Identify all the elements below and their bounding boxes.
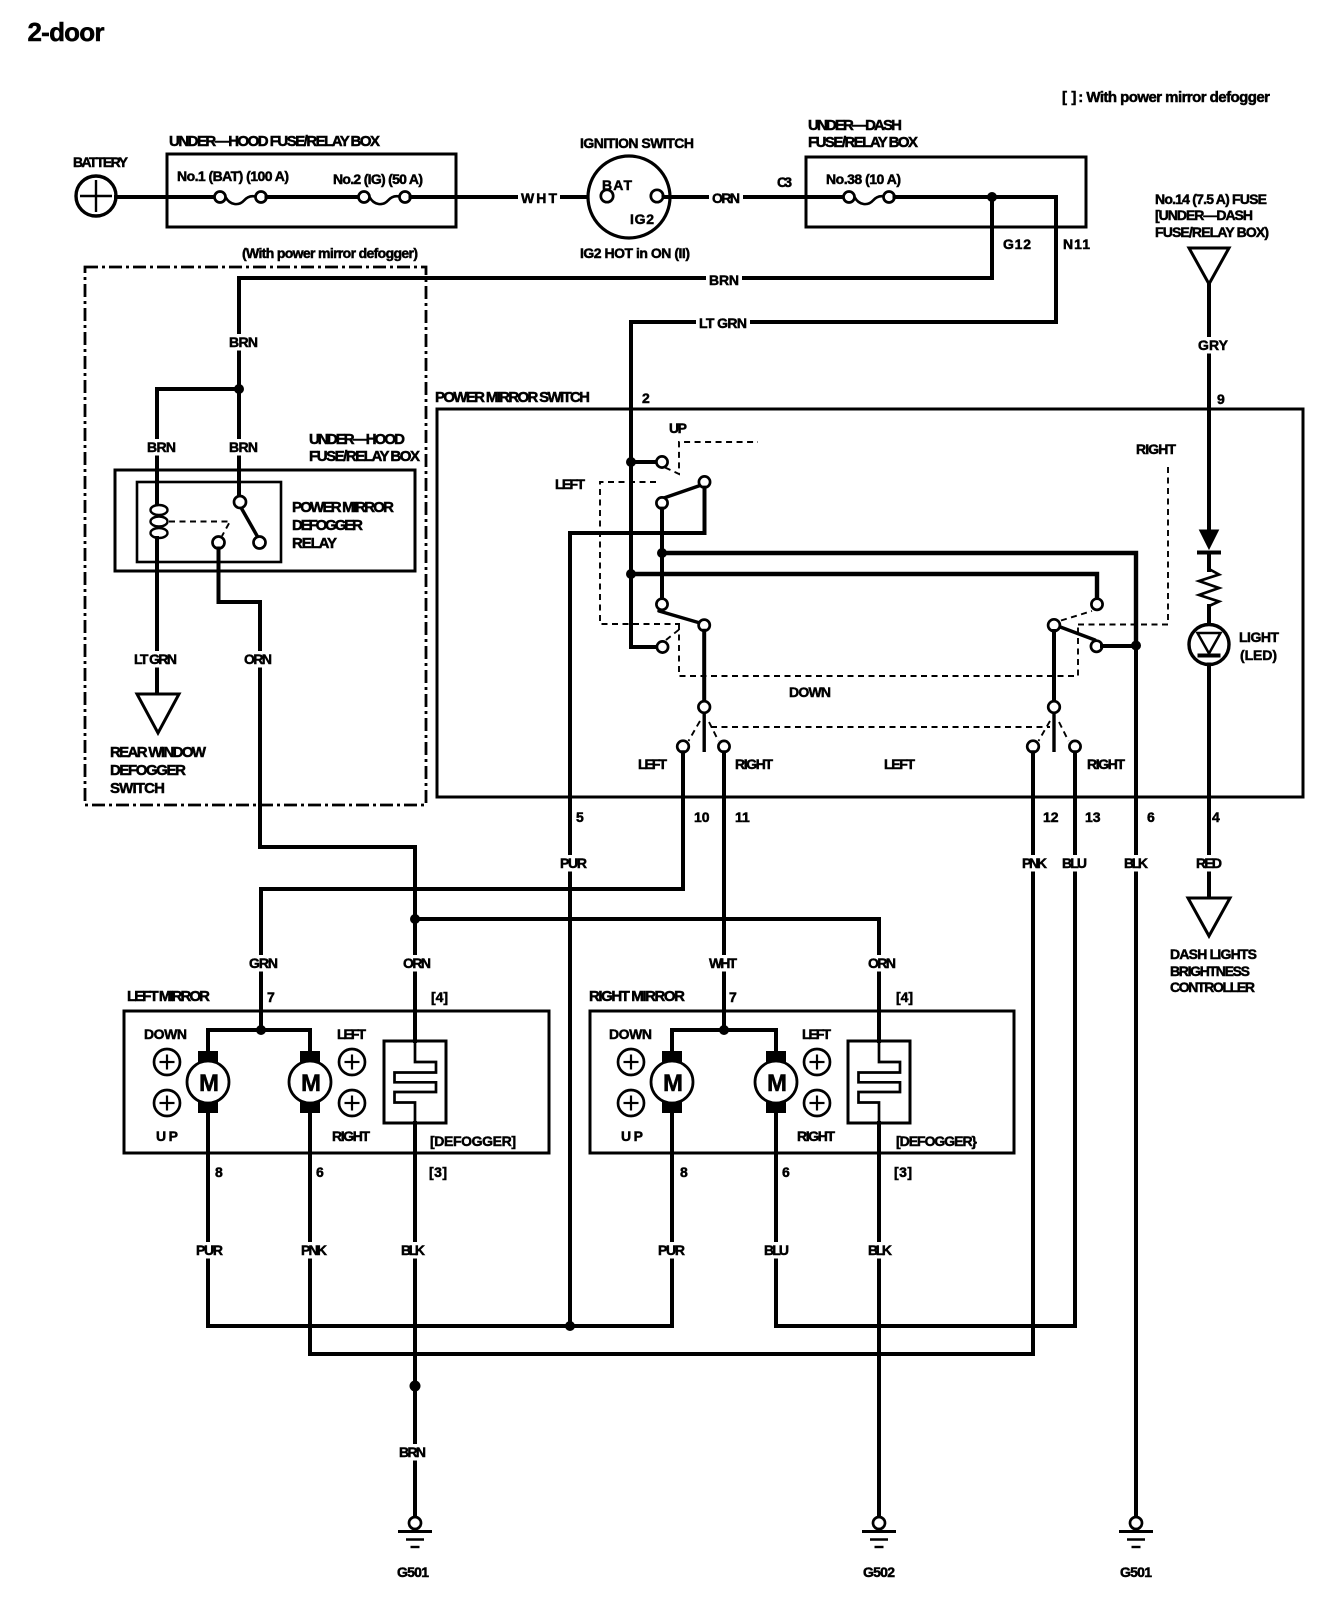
motor right updown xyxy=(651,1051,693,1113)
resistor xyxy=(1199,569,1219,606)
junction BLK line xyxy=(1131,641,1141,651)
wire 2 vertical into switch xyxy=(631,322,657,647)
ground G502 xyxy=(862,1517,896,1580)
fuse No.2 (IG) (50 A) xyxy=(333,171,456,204)
svg-text:PUR: PUR xyxy=(560,855,587,871)
wire LED feed xyxy=(1207,411,1211,530)
svg-text:BRN: BRN xyxy=(229,439,258,455)
svg-text:BRN: BRN xyxy=(709,272,739,288)
left down arm upper circle xyxy=(656,599,667,610)
svg-text:PUR: PUR xyxy=(196,1242,223,1258)
svg-text:7: 7 xyxy=(729,989,737,1005)
svg-text:UNDER—HOOD FUSE/RELAY BOX: UNDER—HOOD FUSE/RELAY BOX xyxy=(169,133,380,150)
wire terminal 12 PNK xyxy=(310,752,1033,1354)
svg-text:PUR: PUR xyxy=(658,1242,685,1258)
svg-text:[UNDER—DASH: [UNDER—DASH xyxy=(1155,207,1253,223)
svg-text:BLK: BLK xyxy=(1124,855,1148,871)
fuse No.38 (10 A) xyxy=(826,171,1056,204)
svg-text:UNDER—HOOD: UNDER—HOOD xyxy=(309,431,405,448)
svg-text:10: 10 xyxy=(694,809,710,825)
pointer circle right xyxy=(1048,701,1060,713)
LED circle xyxy=(1189,625,1229,665)
junction pin7 right xyxy=(719,1025,729,1035)
dash lights controller label xyxy=(1170,946,1257,995)
fuse No.1 (BAT) (100 A) xyxy=(167,168,359,204)
wire ORN ignition to under-dash box xyxy=(664,195,844,199)
svg-text:RIGHT: RIGHT xyxy=(332,1128,370,1144)
terminal 12 contact circle xyxy=(1027,741,1039,753)
wire N11 vertical xyxy=(1054,197,1058,322)
svg-text:G501: G501 xyxy=(397,1564,429,1580)
svg-text:C3: C3 xyxy=(777,174,792,190)
wire BRN horizontal xyxy=(239,276,992,280)
diode xyxy=(1200,530,1219,549)
fuse No.14 label xyxy=(1155,191,1269,240)
svg-text:LEFT MIRROR: LEFT MIRROR xyxy=(127,988,210,1005)
svg-text:LEFT: LEFT xyxy=(555,476,585,492)
terminal 11 contact circle xyxy=(718,741,729,752)
svg-text:(LED): (LED) xyxy=(1240,647,1277,663)
svg-text:[3]: [3] xyxy=(429,1164,447,1180)
wire diode to resistor xyxy=(1207,553,1211,571)
defogger left xyxy=(384,1039,516,1149)
svg-text:BLU: BLU xyxy=(1062,855,1087,871)
right linkage dashed diagonal xyxy=(1061,611,1092,621)
svg-text:6: 6 xyxy=(1147,809,1155,825)
ground G501 left xyxy=(397,1517,432,1580)
svg-text:No.2 (IG) (50 A): No.2 (IG) (50 A) xyxy=(333,171,423,187)
power mirror switch box xyxy=(435,389,1303,797)
relay contact circles xyxy=(234,496,246,508)
svg-text:RIGHT: RIGHT xyxy=(735,756,773,772)
wire ORN to right defogger xyxy=(415,919,879,1041)
svg-text:PNK: PNK xyxy=(301,1242,327,1258)
junction BLK BRN splice xyxy=(410,1381,421,1392)
right switch arm xyxy=(1059,627,1095,641)
wires to left motors xyxy=(208,1030,310,1051)
ignition switch xyxy=(580,135,694,261)
svg-text:[DEFOGGER]: [DEFOGGER] xyxy=(430,1133,516,1149)
svg-text:G502: G502 xyxy=(863,1564,895,1580)
svg-text:GRN: GRN xyxy=(249,955,278,971)
svg-text:[4]: [4] xyxy=(431,989,448,1005)
svg-text:7: 7 xyxy=(267,989,275,1005)
down contact circle wire2 xyxy=(657,641,668,652)
wire to up contact xyxy=(631,460,656,464)
wire WHT box to ignition switch xyxy=(456,195,601,199)
wire row2 horizontal to right xyxy=(631,574,1097,599)
svg-text:RIGHT: RIGHT xyxy=(1136,441,1176,457)
svg-text:BLK: BLK xyxy=(401,1242,425,1258)
svg-text:PNK: PNK xyxy=(1022,855,1047,871)
rear window defogger switch label xyxy=(110,744,207,797)
svg-text:[ ] : With power mirror defog: [ ] : With power mirror defogger xyxy=(1062,89,1270,106)
svg-text:IG2 HOT in ON (II): IG2 HOT in ON (II) xyxy=(580,245,690,261)
svg-text:IGNITION SWITCH: IGNITION SWITCH xyxy=(580,135,694,151)
left down pivot circle xyxy=(699,620,710,631)
svg-text:FUSE/RELAY BOX: FUSE/RELAY BOX xyxy=(808,134,918,151)
wire resistor to LED xyxy=(1207,606,1211,625)
terminal 13 contact circle xyxy=(1069,741,1080,752)
battery B1 xyxy=(73,154,129,216)
svg-text:BRN: BRN xyxy=(399,1444,426,1460)
wire pivot to pointer left xyxy=(702,631,706,701)
fuse No.14 connector triangle xyxy=(1189,248,1229,284)
left down switch arm xyxy=(659,611,700,623)
svg-text:LT GRN: LT GRN xyxy=(134,651,177,667)
junction fuse38 output xyxy=(987,192,997,202)
svg-text:13: 13 xyxy=(1085,809,1101,825)
wire left motor2 PNK xyxy=(308,1113,312,1354)
right pivot circle xyxy=(1048,619,1060,631)
wire right motor1 PUR xyxy=(670,1113,674,1326)
svg-text:8: 8 xyxy=(215,1164,223,1180)
under-hood fuse/relay box (top) xyxy=(167,133,456,227)
DOWN linkage dashed rect xyxy=(679,624,1078,676)
svg-text:FUSE/RELAY BOX: FUSE/RELAY BOX xyxy=(309,448,420,465)
DOWN linkage dashed lower xyxy=(711,726,1050,728)
left mirror box xyxy=(124,988,549,1153)
pointer finger right xyxy=(1052,713,1055,752)
wire row1 horizontal to right xyxy=(662,553,1136,645)
svg-text:6: 6 xyxy=(316,1164,324,1180)
wire left defogger BLK xyxy=(413,1123,417,1517)
pointer circle left xyxy=(698,701,710,713)
junction left mid xyxy=(657,548,667,558)
svg-text:LT GRN: LT GRN xyxy=(699,315,747,331)
wire GRY xyxy=(1207,284,1211,411)
left up pivot circle xyxy=(699,476,710,487)
dash lights controller triangle xyxy=(1188,898,1230,936)
svg-text:No.38 (10 A): No.38 (10 A) xyxy=(826,171,901,187)
wire terminal 10 GRN to left mirror xyxy=(261,752,683,1030)
dashed box with power mirror defogger xyxy=(85,245,426,805)
svg-text:(With power mirror defogger): (With power mirror defogger) xyxy=(242,245,418,261)
svg-text:6: 6 xyxy=(782,1164,790,1180)
svg-text:BATTERY: BATTERY xyxy=(73,154,129,170)
svg-text:LEFT: LEFT xyxy=(802,1026,831,1042)
pointer dashed arcs right xyxy=(1039,721,1051,741)
svg-text:No.1 (BAT) (100 A): No.1 (BAT) (100 A) xyxy=(177,168,289,184)
svg-text:G12: G12 xyxy=(1003,236,1031,252)
wire BRN into dashed box xyxy=(237,278,241,496)
up contact circle xyxy=(656,456,667,467)
svg-text:LEFT: LEFT xyxy=(884,756,915,772)
ground G501 right xyxy=(1119,1517,1153,1580)
relay linkage dashed xyxy=(169,522,230,537)
wire terminal 13 BLU xyxy=(776,752,1075,1326)
svg-text:SWITCH: SWITCH xyxy=(110,780,165,797)
svg-text:LEFT: LEFT xyxy=(638,756,667,772)
svg-text:DOWN: DOWN xyxy=(609,1026,652,1042)
junction pin7 left xyxy=(256,1025,266,1035)
svg-text:IG2: IG2 xyxy=(630,211,654,227)
wire left motor1 PUR xyxy=(206,1113,210,1326)
wire BRN branch left xyxy=(157,389,239,505)
svg-text:RELAY: RELAY xyxy=(292,535,337,552)
svg-text:4: 4 xyxy=(1212,809,1220,825)
right mirror box xyxy=(589,988,1014,1153)
wire PUR bottom bus xyxy=(208,1324,672,1328)
wire LT GRN horizontal xyxy=(631,320,1056,324)
ORN label left mirror xyxy=(400,955,434,972)
svg-text:DOWN: DOWN xyxy=(789,684,831,700)
svg-text:GRY: GRY xyxy=(1198,337,1229,353)
junction BRN split xyxy=(234,384,244,394)
LED cathode bar xyxy=(1198,654,1221,658)
wire G12 vertical xyxy=(990,197,994,278)
svg-text:RIGHT: RIGHT xyxy=(797,1128,835,1144)
motor right leftright xyxy=(755,1051,797,1113)
wire left mid vertical xyxy=(660,509,664,599)
svg-text:ORN: ORN xyxy=(712,190,740,206)
junction wire2 row2 xyxy=(626,569,636,579)
svg-text:ORN: ORN xyxy=(403,955,431,971)
wire RED label xyxy=(1193,855,1225,872)
junction PUR bottom xyxy=(565,1321,575,1331)
svg-text:ORN: ORN xyxy=(244,651,272,667)
terminal 10 contact circle xyxy=(677,741,689,753)
pointer finger left xyxy=(703,713,706,752)
motor left leftright xyxy=(289,1051,331,1113)
svg-text:M: M xyxy=(767,1070,787,1097)
svg-text:M: M xyxy=(199,1070,219,1097)
LEFT linkage dashed xyxy=(600,482,680,624)
plus circles right mirror xyxy=(618,1049,830,1116)
wire relay coil to rear window defogger switch xyxy=(155,538,159,694)
wire right defogger BLK to ground xyxy=(877,1123,881,1517)
relay contact arm xyxy=(241,508,258,538)
svg-text:8: 8 xyxy=(680,1164,688,1180)
svg-text:ORN: ORN xyxy=(868,955,896,971)
svg-text:BLU: BLU xyxy=(764,1242,789,1258)
motor left updown xyxy=(187,1051,229,1113)
wire pivot to pointer right xyxy=(1052,631,1056,701)
svg-text:DOWN: DOWN xyxy=(144,1026,187,1042)
svg-text:BRN: BRN xyxy=(147,439,176,455)
svg-text:UP: UP xyxy=(669,420,687,436)
LIGHT LED label xyxy=(1239,629,1279,663)
svg-text:RED: RED xyxy=(1196,855,1222,871)
svg-text:5: 5 xyxy=(576,809,584,825)
wire ORN from relay to left mirror defogger xyxy=(219,549,416,1042)
under-hood fuse/relay box (relay) xyxy=(115,431,420,571)
svg-text:2-door: 2-door xyxy=(28,17,105,47)
svg-text:12: 12 xyxy=(1043,809,1059,825)
svg-text:REAR WINDOW: REAR WINDOW xyxy=(110,744,207,761)
wire terminal 6 BLK to ground xyxy=(1134,645,1138,1517)
svg-text:RIGHT: RIGHT xyxy=(1087,756,1125,772)
power mirror defogger relay xyxy=(137,482,394,562)
svg-text:M: M xyxy=(663,1070,683,1097)
UP linkage dashed xyxy=(665,442,758,474)
svg-text:FUSE/RELAY BOX): FUSE/RELAY BOX) xyxy=(1155,224,1269,240)
plus circles left mirror xyxy=(154,1049,365,1116)
defogger right xyxy=(848,1039,978,1149)
svg-text:BLK: BLK xyxy=(868,1242,892,1258)
svg-text:[DEFOGGER}: [DEFOGGER} xyxy=(896,1133,978,1149)
svg-text:BRIGHTNESS: BRIGHTNESS xyxy=(1170,963,1250,979)
wires to right motors xyxy=(672,1030,776,1051)
wire battery to under-hood box xyxy=(116,195,168,199)
svg-text:11: 11 xyxy=(735,809,750,825)
svg-text:2: 2 xyxy=(642,390,650,406)
wire right contact to BLK line xyxy=(1102,644,1136,648)
svg-text:UNDER—DASH: UNDER—DASH xyxy=(808,117,902,134)
svg-text:WHT: WHT xyxy=(521,190,557,206)
right down contact circle xyxy=(1091,641,1102,652)
svg-text:9: 9 xyxy=(1217,391,1225,407)
relay coil xyxy=(151,505,168,538)
junction on wire 2 upper xyxy=(626,457,636,467)
svg-text:POWER MIRROR SWITCH: POWER MIRROR SWITCH xyxy=(435,389,590,406)
svg-text:N11: N11 xyxy=(1063,236,1090,252)
svg-text:No.14 (7.5 A) FUSE: No.14 (7.5 A) FUSE xyxy=(1155,191,1267,207)
svg-text:DEFOGGER: DEFOGGER xyxy=(110,762,186,779)
wire right motor2 BLU xyxy=(774,1113,778,1326)
RIGHT linkage dashed xyxy=(1078,464,1168,625)
svg-text:G501: G501 xyxy=(1120,1564,1152,1580)
svg-text:[3]: [3] xyxy=(894,1164,912,1180)
svg-text:BRN: BRN xyxy=(229,334,258,350)
svg-text:DEFOGGER: DEFOGGER xyxy=(292,517,363,534)
left up arm lower circle xyxy=(656,497,667,508)
svg-text:POWER MIRROR: POWER MIRROR xyxy=(292,499,394,516)
left up switch arm xyxy=(661,486,700,500)
svg-text:[4]: [4] xyxy=(896,989,913,1005)
junction ORN split xyxy=(410,914,420,924)
pointer dashed arcs left xyxy=(689,721,701,741)
svg-text:LIGHT: LIGHT xyxy=(1239,629,1279,645)
wire PUR from terminal 5 label xyxy=(557,855,590,872)
svg-text:DASH LIGHTS: DASH LIGHTS xyxy=(1170,946,1257,962)
svg-text:M: M xyxy=(301,1070,321,1097)
wire LED to dash lights controller xyxy=(1207,665,1211,899)
under-dash fuse/relay box xyxy=(806,117,1086,227)
svg-text:WHT: WHT xyxy=(709,955,737,971)
rear window defogger switch triangle xyxy=(137,694,179,733)
LED triangle xyxy=(1198,633,1221,654)
wire pivot to terminal 5 xyxy=(570,488,705,1326)
wire terminal 11 WHT to right mirror xyxy=(722,752,726,1030)
left down linkage dashed xyxy=(666,628,681,640)
svg-text:CONTROLLER: CONTROLLER xyxy=(1170,979,1255,995)
svg-text:LEFT: LEFT xyxy=(337,1026,366,1042)
svg-text:RIGHT MIRROR: RIGHT MIRROR xyxy=(589,988,685,1005)
right up contact circle xyxy=(1091,599,1102,610)
